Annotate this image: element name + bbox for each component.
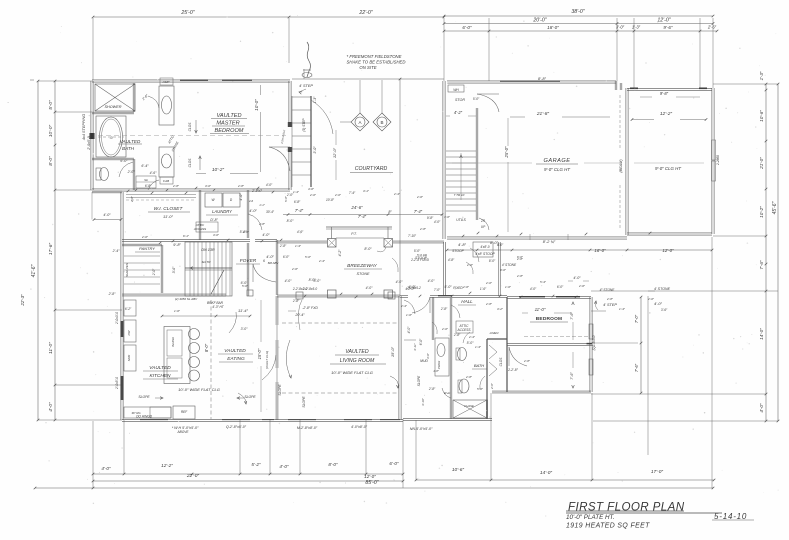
svg-text:38'-0″: 38'-0″ — [571, 9, 584, 15]
svg-text:2'-8″: 2'-8″ — [523, 359, 531, 363]
svg-text:2'-0″: 2'-0″ — [647, 297, 655, 301]
svg-text:7'-4″: 7'-4″ — [414, 209, 423, 214]
svg-text:4'-0″: 4'-0″ — [428, 279, 436, 283]
svg-text:1919 HEATED SQ FEET: 1919 HEATED SQ FEET — [566, 523, 650, 530]
svg-text:SLOPE: SLOPE — [302, 396, 306, 408]
svg-text:4'-0″: 4'-0″ — [101, 466, 111, 471]
svg-text:10'-0″: 10'-0″ — [48, 125, 54, 138]
svg-text:STONE: STONE — [356, 272, 369, 276]
svg-text:2'-8″: 2'-8″ — [453, 333, 461, 337]
svg-text:4x4 STEPPING: 4x4 STEPPING — [82, 114, 86, 140]
svg-text:8'-0″: 8'-0″ — [309, 278, 317, 282]
svg-text:3'-1″: 3'-1″ — [363, 189, 370, 193]
svg-text:4'-8″: 4'-8″ — [458, 242, 467, 247]
svg-text:CLOS: CLOS — [188, 122, 192, 132]
svg-text:SHOWER: SHOWER — [104, 105, 121, 109]
svg-text:P.T.: P.T. — [351, 232, 357, 236]
svg-text:9'-0″ CLG HT: 9'-0″ CLG HT — [655, 166, 681, 171]
svg-text:8'-0″: 8'-0″ — [287, 219, 295, 223]
svg-text:-0: -0 — [109, 136, 112, 140]
svg-text:4'-0″: 4'-0″ — [434, 220, 441, 224]
svg-text:30'-4″: 30'-4″ — [266, 210, 275, 214]
svg-text:7'-0″: 7'-0″ — [434, 288, 441, 292]
svg-text:16'-0″: 16'-0″ — [594, 248, 606, 253]
svg-text:6'-4″: 6'-4″ — [141, 164, 149, 168]
svg-text:3'-6″: 3'-6″ — [172, 266, 176, 274]
svg-text:SLOPE: SLOPE — [417, 375, 421, 387]
svg-text:(2) 4050 SL ABV: (2) 4050 SL ABV — [175, 297, 198, 301]
svg-text:24'-6″: 24'-6″ — [350, 205, 363, 210]
svg-text:2'-8″: 2'-8″ — [130, 195, 134, 203]
svg-text:2'-8″: 2'-8″ — [606, 297, 614, 301]
svg-text:DN 13R: DN 13R — [201, 248, 215, 252]
svg-text:SLOPE: SLOPE — [244, 395, 256, 399]
svg-text:11'-0″: 11'-0″ — [535, 307, 546, 312]
svg-text:2'-8″: 2'-8″ — [428, 387, 436, 391]
svg-text:2'-8″: 2'-8″ — [258, 222, 266, 226]
svg-text:A: A — [358, 120, 361, 125]
svg-text:2'-6″: 2'-6″ — [490, 382, 494, 390]
svg-text:7'-6″: 7'-6″ — [570, 312, 574, 320]
svg-text:7'-6″: 7'-6″ — [570, 372, 574, 380]
svg-text:VAULTED: VAULTED — [149, 365, 171, 371]
svg-text:6'-0″: 6'-0″ — [462, 25, 472, 30]
svg-text:SHELVES: SHELVES — [125, 263, 129, 277]
svg-text:5'-0″: 5'-0″ — [467, 341, 475, 345]
svg-text:3'-0″: 3'-0″ — [205, 184, 212, 188]
svg-text:HALL: HALL — [461, 299, 473, 304]
svg-text:BREEZEWAY: BREEZEWAY — [347, 263, 377, 269]
svg-text:5'-2″: 5'-2″ — [251, 462, 261, 467]
svg-text:4'-0″: 4'-0″ — [266, 255, 274, 259]
svg-text:W.I. CLOSET: W.I. CLOSET — [154, 206, 184, 212]
svg-text:15'-0″: 15'-0″ — [390, 346, 395, 357]
svg-text:5'-0 HD: 5'-0 HD — [417, 253, 428, 257]
svg-text:ISLAND: ISLAND — [171, 337, 175, 347]
svg-text:4'-0″: 4'-0″ — [396, 280, 404, 284]
svg-text:4'-0″: 4'-0″ — [239, 193, 243, 201]
svg-text:3'-0″: 3'-0″ — [426, 352, 430, 359]
svg-text:3'-6″: 3'-6″ — [444, 215, 451, 219]
svg-text:2'-8″: 2'-8″ — [279, 244, 287, 248]
svg-text:M-2'-8″x8'-0″: M-2'-8″x8'-0″ — [297, 426, 318, 430]
svg-text:10'-0″ PLATE HT.: 10'-0″ PLATE HT. — [566, 514, 615, 521]
svg-text:2'-4″: 2'-4″ — [318, 259, 326, 263]
svg-text:2'-8″: 2'-8″ — [172, 184, 180, 188]
svg-text:FOYER: FOYER — [240, 258, 257, 264]
svg-text:2'-8″: 2'-8″ — [237, 184, 245, 188]
svg-text:CAB: CAB — [163, 179, 169, 183]
svg-text:8'-0″: 8'-0″ — [48, 156, 54, 166]
svg-text:10'-2″: 10'-2″ — [759, 206, 764, 218]
svg-text:2'-0″: 2'-0″ — [309, 193, 317, 197]
svg-text:12'-2″: 12'-2″ — [660, 111, 673, 117]
svg-text:6'-1″: 6'-1″ — [183, 234, 190, 238]
svg-text:1'-6″: 1'-6″ — [406, 313, 413, 317]
svg-text:10'-8″: 10'-8″ — [326, 198, 335, 202]
svg-text:4' STEP: 4' STEP — [603, 303, 617, 307]
svg-text:2-2'-8 FURD: 2-2'-8 FURD — [410, 258, 429, 262]
svg-text:4'-2″: 4'-2″ — [338, 249, 342, 257]
svg-text:12'-2″: 12'-2″ — [161, 463, 173, 468]
svg-text:2'-4″: 2'-4″ — [468, 335, 476, 339]
svg-text:8'-0″: 8'-0″ — [497, 243, 504, 247]
svg-text:CLOS: CLOS — [499, 357, 503, 367]
svg-text:SLOPE: SLOPE — [138, 395, 150, 399]
svg-text:4' STONE: 4' STONE — [654, 287, 671, 291]
svg-text:D'-8″: D'-8″ — [210, 218, 218, 222]
svg-text:CHASE: CHASE — [464, 404, 474, 408]
svg-text:OO HINGD: OO HINGD — [136, 415, 153, 419]
svg-text:4'-2″: 4'-2″ — [454, 110, 463, 115]
svg-text:BEDROOM: BEDROOM — [536, 316, 562, 322]
svg-text:14'-0″: 14'-0″ — [759, 328, 764, 340]
svg-text:4'-0″: 4'-0″ — [249, 209, 257, 213]
svg-text:5-14-10: 5-14-10 — [714, 512, 747, 521]
svg-text:4'-0″: 4'-0″ — [103, 213, 111, 217]
svg-text:4'-0″: 4'-0″ — [48, 402, 54, 412]
svg-text:ACCESS: ACCESS — [193, 227, 206, 231]
svg-text:4'-0″: 4'-0″ — [366, 286, 374, 290]
svg-text:9'-6″: 9'-6″ — [663, 25, 673, 30]
svg-text:4'-0″: 4'-0″ — [530, 287, 537, 291]
svg-text:6'-8″: 6'-8″ — [145, 184, 152, 188]
svg-text:BATH: BATH — [474, 363, 484, 368]
svg-text:-2'-8″ FXD: -2'-8″ FXD — [302, 306, 318, 310]
svg-text:2'-6″: 2'-6″ — [462, 285, 470, 289]
svg-text:2'-0″: 2'-0″ — [127, 170, 136, 174]
svg-text:20'-4″: 20'-4″ — [294, 313, 305, 317]
svg-text:NN-5'-0″x5'-0″: NN-5'-0″x5'-0″ — [410, 427, 433, 431]
svg-text:6: 6 — [263, 259, 265, 263]
svg-text:4'-0″: 4'-0″ — [407, 326, 411, 334]
svg-text:3'-0″: 3'-0″ — [241, 327, 249, 331]
svg-text:SH: SH — [144, 178, 148, 182]
svg-text:2'-4″: 2'-4″ — [400, 304, 408, 308]
svg-text:ABOVE: ABOVE — [177, 430, 190, 434]
svg-text:VAULTED: VAULTED — [345, 349, 369, 355]
svg-text:8'-0″: 8'-0″ — [204, 343, 209, 352]
svg-text:4'-0″: 4'-0″ — [408, 285, 416, 289]
svg-text:CLOS: CLOS — [188, 158, 192, 168]
svg-text:LINEN: LINEN — [490, 331, 500, 335]
svg-text:8'-8″: 8'-8″ — [538, 76, 547, 81]
svg-text:8'-0″: 8'-0″ — [489, 259, 496, 263]
svg-text:WH: WH — [453, 88, 459, 92]
svg-text:4'-0″: 4'-0″ — [262, 233, 270, 237]
svg-text:(VAULT CLG): (VAULT CLG) — [265, 351, 269, 369]
svg-text:4'-11″: 4'-11″ — [413, 342, 417, 350]
svg-text:2'-0″: 2'-0″ — [334, 193, 342, 197]
svg-text:8'-2 ¾″: 8'-2 ¾″ — [543, 239, 556, 244]
svg-text:ON SITE: ON SITE — [359, 65, 376, 70]
svg-text:BATH: BATH — [122, 146, 135, 151]
svg-text:1'-3″: 1'-3″ — [295, 244, 302, 248]
svg-text:10'-0″: 10'-0″ — [254, 99, 259, 111]
svg-text:17'-6″: 17'-6″ — [48, 243, 54, 256]
svg-text:5'-0″: 5'-0″ — [242, 284, 249, 288]
svg-text:FIRST FLOOR PLAN: FIRST FLOOR PLAN — [568, 501, 685, 514]
svg-text:4'-0″: 4'-0″ — [573, 276, 581, 280]
svg-text:1'-3″: 1'-3″ — [632, 25, 641, 30]
svg-text:18'-0″: 18'-0″ — [547, 25, 559, 30]
svg-text:5'-0″: 5'-0″ — [477, 387, 484, 391]
svg-text:UTILS: UTILS — [456, 218, 466, 222]
svg-text:1'-6″: 1'-6″ — [174, 309, 181, 313]
svg-text:2'-4″: 2'-4″ — [393, 192, 401, 196]
svg-text:2'-8″: 2'-8″ — [292, 299, 300, 303]
svg-text:2'-0″: 2'-0″ — [152, 268, 156, 276]
svg-text:11'-0″: 11'-0″ — [48, 342, 54, 354]
svg-text:2'-6″: 2'-6″ — [291, 267, 299, 271]
svg-text:W+D: W+D — [444, 391, 452, 395]
svg-text:1'-6″: 1'-6″ — [480, 287, 487, 291]
svg-text:4'-0″x8'-0″: 4'-0″x8'-0″ — [351, 425, 368, 429]
svg-text:2-2'-8x5-0: 2-2'-8x5-0 — [302, 287, 317, 291]
svg-text:MASTER: MASTER — [216, 121, 239, 127]
svg-text:2-6: 2-6 — [248, 199, 253, 203]
svg-text:1'-6″: 1'-6″ — [505, 285, 512, 289]
svg-text:3'-2″: 3'-2″ — [497, 307, 504, 311]
svg-text:10'-6″: 10'-6″ — [452, 467, 465, 473]
svg-text:7'-4″: 7'-4″ — [358, 214, 367, 219]
svg-text:4'x8' STOOP: 4'x8' STOOP — [475, 252, 495, 256]
svg-text:5'-0″: 5'-0″ — [473, 97, 480, 101]
svg-text:2'-0x5'-0: 2'-0x5'-0 — [115, 377, 119, 390]
svg-text:5'-0″: 5'-0″ — [48, 100, 54, 110]
svg-text:6'-2″: 6'-2″ — [125, 307, 132, 311]
svg-text:8'-0″: 8'-0″ — [364, 247, 372, 251]
svg-text:12'-0″: 12'-0″ — [662, 248, 674, 253]
svg-text:6'-0″: 6'-0″ — [283, 255, 290, 259]
svg-text:4'x8'-0: 4'x8'-0 — [480, 245, 489, 249]
svg-text:2'-0″: 2'-0″ — [141, 235, 149, 239]
svg-text:2'-0x3'-0: 2'-0x3'-0 — [115, 312, 119, 325]
svg-text:ACCESS: ACCESS — [456, 328, 471, 332]
svg-text:VAULTED: VAULTED — [224, 348, 246, 354]
svg-text:PANTRY: PANTRY — [139, 246, 155, 251]
svg-text:41'-6″: 41'-6″ — [31, 264, 37, 277]
svg-text:12'-0″: 12'-0″ — [657, 18, 670, 24]
svg-text:6'-0″: 6'-0″ — [389, 461, 399, 466]
svg-text:2'-8″: 2'-8″ — [516, 274, 524, 278]
svg-text:6'-0″: 6'-0″ — [557, 285, 564, 289]
svg-text:HMP: HMP — [163, 80, 170, 84]
svg-text:4'-3″ HT: 4'-3″ HT — [212, 305, 225, 309]
svg-text:2'-6″: 2'-6″ — [466, 263, 474, 267]
svg-text:(BEAM): (BEAM) — [619, 159, 623, 173]
svg-text:45'-6″: 45'-6″ — [772, 201, 778, 214]
svg-text:6'-0″: 6'-0″ — [419, 338, 423, 345]
svg-text:11'-4″: 11'-4″ — [238, 308, 248, 313]
svg-text:85'-0″: 85'-0″ — [365, 480, 378, 486]
svg-text:7'-6″: 7'-6″ — [634, 363, 639, 372]
svg-text:2'-8″: 2'-8″ — [465, 375, 473, 379]
svg-text:(3) STEP: (3) STEP — [302, 118, 306, 132]
svg-text:4'-8″: 4'-8″ — [448, 258, 455, 262]
svg-text:8'-0″: 8'-0″ — [328, 462, 338, 467]
svg-text:1'-3″: 1'-3″ — [759, 71, 764, 80]
svg-text:25'-0″: 25'-0″ — [504, 146, 509, 159]
svg-text:4'-0″: 4'-0″ — [266, 183, 273, 187]
svg-text:9'-0″ CLG HT: 9'-0″ CLG HT — [544, 167, 570, 172]
svg-text:11'-0″: 11'-0″ — [163, 214, 173, 219]
svg-text:7'-6″: 7'-6″ — [759, 260, 764, 270]
svg-text:2'-0″: 2'-0″ — [441, 327, 449, 331]
svg-text:4″ STONE: 4″ STONE — [600, 288, 616, 292]
svg-text:7'-4″: 7'-4″ — [295, 208, 304, 213]
svg-text:BM ABV: BM ABV — [268, 261, 280, 265]
svg-text:22'-0″: 22'-0″ — [358, 10, 372, 16]
svg-text:VAULTED: VAULTED — [216, 113, 241, 119]
svg-text:KITCHEN: KITCHEN — [149, 373, 171, 379]
svg-text:10'-2″: 10'-2″ — [212, 167, 225, 173]
svg-text:3'-0″: 3'-0″ — [313, 146, 317, 154]
svg-text:9'-8″: 9'-8″ — [173, 243, 181, 247]
svg-text:1'-4″: 1'-4″ — [619, 307, 626, 311]
svg-text:4' STEP: 4' STEP — [299, 84, 313, 88]
svg-text:SHAKE TO BE ESTABLISHED: SHAKE TO BE ESTABLISHED — [346, 60, 405, 65]
svg-text:SLOPE: SLOPE — [278, 384, 282, 396]
svg-text:7'-4″: 7'-4″ — [349, 191, 356, 195]
svg-text:4'-0″: 4'-0″ — [285, 279, 293, 283]
svg-text:10'-6″: 10'-6″ — [759, 110, 764, 122]
svg-text:22'-3″: 22'-3″ — [20, 294, 25, 307]
svg-text:PWDR: PWDR — [437, 361, 441, 370]
svg-text:VAULTED: VAULTED — [120, 139, 141, 144]
svg-text:4'-6″: 4'-6″ — [308, 187, 315, 191]
svg-text:2'-6″: 2'-6″ — [707, 25, 717, 30]
svg-text:21'-8″: 21'-8″ — [536, 111, 550, 117]
svg-text:5'-8″: 5'-8″ — [284, 195, 288, 202]
svg-text:2'-6″: 2'-6″ — [578, 284, 586, 288]
svg-text:22'-0″: 22'-0″ — [186, 473, 200, 479]
svg-text:REF: REF — [181, 410, 188, 414]
svg-text:21'-0″: 21'-0″ — [759, 157, 764, 170]
svg-text:2-2'-8″: 2-2'-8″ — [507, 368, 519, 372]
svg-text:* FREEMONT FIELDSTONE: * FREEMONT FIELDSTONE — [346, 54, 401, 59]
svg-text:4'-0″: 4'-0″ — [654, 301, 663, 306]
svg-text:GARAGE: GARAGE — [544, 158, 571, 164]
svg-text:5'-4″: 5'-4″ — [540, 280, 547, 284]
svg-text:STOR: STOR — [455, 98, 465, 102]
svg-text:12'-0″: 12'-0″ — [364, 474, 376, 479]
svg-text:LAUNDRY: LAUNDRY — [212, 209, 233, 214]
svg-text:2'-0″: 2'-0″ — [485, 281, 493, 285]
svg-text:4'-0″: 4'-0″ — [759, 403, 764, 413]
svg-text:B: B — [380, 120, 383, 125]
svg-text:5'-0″: 5'-0″ — [305, 255, 312, 259]
svg-text:6'-8″: 6'-8″ — [294, 200, 301, 204]
svg-text:7'-10″: 7'-10″ — [408, 234, 417, 238]
svg-text:15'-0″: 15'-0″ — [257, 348, 262, 359]
svg-text:4'-0″: 4'-0″ — [279, 464, 289, 469]
svg-text:10'-0″ WIDE FLAT CLG: 10'-0″ WIDE FLAT CLG — [331, 370, 373, 375]
svg-text:6'-0″: 6'-0″ — [120, 159, 128, 163]
svg-text:3'-0″: 3'-0″ — [500, 268, 507, 272]
svg-text:2'-8″: 2'-8″ — [419, 227, 427, 231]
svg-text:17'-0″: 17'-0″ — [651, 469, 664, 475]
svg-text:4' STONE: 4' STONE — [502, 263, 517, 267]
svg-text:EATING: EATING — [227, 356, 245, 362]
svg-text:2'-8″: 2'-8″ — [485, 302, 493, 306]
svg-text:7 TR 10: 7 TR 10 — [454, 193, 465, 197]
svg-text:LIVING ROOM: LIVING ROOM — [340, 358, 375, 364]
svg-text:STOOP: STOOP — [452, 249, 465, 253]
svg-text:SH TR: SH TR — [202, 260, 212, 264]
svg-text:Q-2'-8″x5'-0″: Q-2'-8″x5'-0″ — [226, 425, 247, 429]
svg-text:2'-4″: 2'-4″ — [112, 249, 121, 253]
svg-text:4'-10″: 4'-10″ — [421, 397, 425, 406]
svg-text:BEDROOM: BEDROOM — [215, 128, 244, 134]
svg-text:25'-0″: 25'-0″ — [180, 10, 194, 16]
svg-text:2'-6″: 2'-6″ — [416, 195, 424, 199]
svg-text:2'-8″x?: 2'-8″x? — [251, 189, 262, 193]
svg-text:1'-3″: 1'-3″ — [475, 345, 482, 349]
svg-text:14'-0″: 14'-0″ — [540, 470, 553, 476]
svg-text:1'-3″: 1'-3″ — [313, 96, 317, 104]
svg-text:COURTYARD: COURTYARD — [355, 166, 388, 172]
svg-text:SINK: SINK — [127, 355, 131, 362]
svg-text:20'-0″: 20'-0″ — [532, 18, 546, 24]
svg-text:10'-0″ WIDE FLAT CLG: 10'-0″ WIDE FLAT CLG — [178, 387, 220, 392]
svg-text:9'-8″: 9'-8″ — [660, 91, 669, 96]
svg-text:3'-0″: 3'-0″ — [213, 233, 220, 237]
svg-text:4'-6″: 4'-6″ — [150, 171, 158, 175]
svg-text:7'-0″: 7'-0″ — [634, 314, 639, 323]
svg-text:2-2668: 2-2668 — [716, 155, 720, 166]
svg-text:12'-0″: 12'-0″ — [332, 147, 337, 158]
svg-text:2'-8″: 2'-8″ — [440, 307, 448, 311]
svg-text:2'-8″: 2'-8″ — [242, 230, 250, 234]
svg-text:3'-6″: 3'-6″ — [661, 308, 668, 312]
svg-text:2'-8″: 2'-8″ — [108, 292, 117, 296]
svg-text:5'-0″: 5'-0″ — [444, 285, 452, 289]
svg-text:2'-8″: 2'-8″ — [516, 257, 524, 261]
svg-text:1'-4″: 1'-4″ — [293, 190, 300, 194]
